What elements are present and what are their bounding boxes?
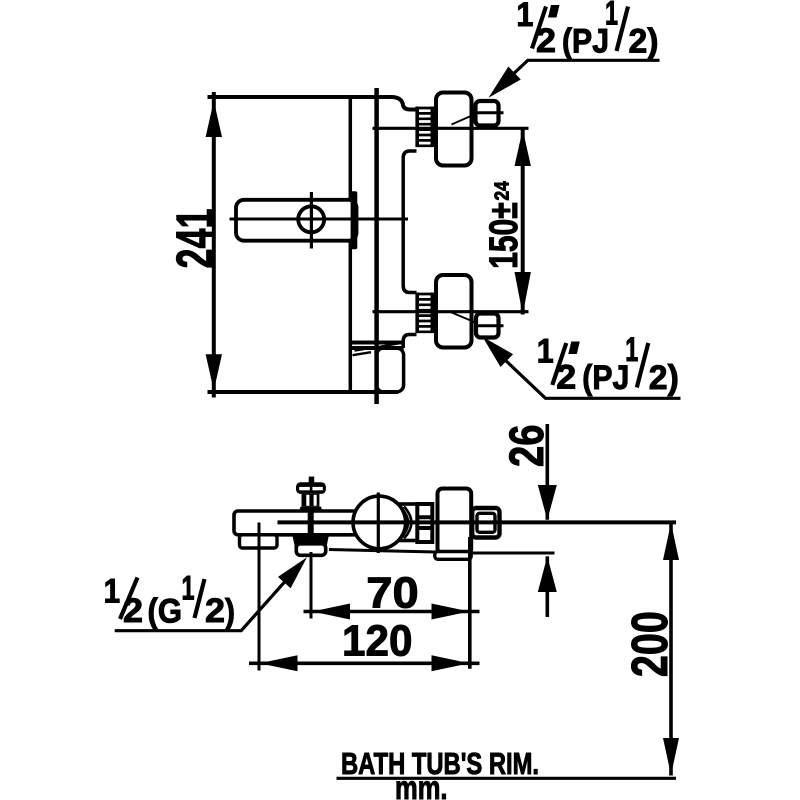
- btm knurl white backing: [416, 502, 435, 543]
- spout small diagonal: [353, 352, 372, 355]
- bottom cap chamfer line: [452, 313, 476, 323]
- svg-text:150±: 150±: [482, 202, 526, 269]
- svg-text:(PJ: (PJ: [582, 359, 629, 397]
- body bottom edge + extension line 241: [208, 390, 399, 394]
- dim 200 line: [669, 523, 673, 776]
- svg-text:241: 241: [167, 209, 225, 269]
- spout outlet box: [377, 348, 404, 392]
- label G text: [104, 570, 235, 632]
- spout diagonal detail: [355, 343, 403, 351]
- bottom nut stub line: [476, 324, 504, 327]
- dim 26 down arrow: [538, 485, 557, 520]
- svg-text:26: 26: [501, 425, 554, 468]
- screw stem through bar: [308, 511, 314, 535]
- svg-text:70: 70: [366, 569, 419, 618]
- svg-text:2: 2: [536, 22, 556, 60]
- dim 150 bottom arrow: [515, 272, 531, 315]
- spout ledge line 1: [350, 341, 403, 345]
- svg-text:mm.: mm.: [395, 769, 448, 800]
- svg-text:1: 1: [625, 331, 638, 369]
- top knurl right edge: [430, 107, 434, 148]
- screw stem top: [309, 477, 315, 484]
- bath tub rim underline / extension: [337, 777, 677, 780]
- deck bar: [234, 511, 419, 535]
- dim 150 line: [521, 130, 525, 315]
- datum line left: [329, 550, 436, 553]
- dim 70 left extension: [310, 552, 313, 619]
- label PJ top underline: [500, 60, 660, 86]
- label PJ bottom text: [537, 331, 679, 397]
- dim 70 right arrow: [432, 604, 470, 620]
- svg-text:120: 120: [342, 617, 413, 666]
- top cap: [436, 93, 472, 166]
- btm nut inner: [477, 513, 495, 532]
- dim 241 top arrow: [206, 101, 222, 137]
- btm knurl threads: [416, 504, 435, 542]
- screw T cap: [296, 482, 326, 494]
- handle centerline: [230, 218, 409, 221]
- btm cap flange lip: [435, 552, 471, 560]
- body top edge + extension line 241: [208, 97, 417, 110]
- top nut: [476, 101, 499, 126]
- bottom knurl threads: [416, 294, 434, 332]
- svg-text:2: 2: [205, 592, 225, 630]
- svg-text:2): 2): [649, 359, 679, 397]
- svg-text:2: 2: [556, 359, 576, 397]
- svg-text:2: 2: [123, 592, 143, 630]
- svg-text:24: 24: [491, 181, 513, 201]
- dim 26 line upper: [545, 424, 549, 520]
- dim 26 up arrow: [538, 556, 557, 592]
- label G arrowhead: [278, 557, 307, 588]
- dim 120 left arrow: [260, 655, 298, 671]
- btm cap: [438, 489, 472, 555]
- handle pivot circle: [298, 206, 324, 232]
- handle lever body: [236, 200, 357, 241]
- top fitting centerline: [373, 127, 529, 130]
- crescent arc outer: [404, 507, 411, 539]
- bonnet box: [394, 504, 418, 541]
- bottom nut: [476, 314, 499, 338]
- deck foot: [240, 535, 278, 548]
- dim 200 top arrow: [663, 523, 679, 560]
- svg-text:1: 1: [537, 333, 554, 371]
- body left vertical: [349, 97, 353, 392]
- svg-text:1: 1: [182, 570, 195, 608]
- bottom knurl right edge: [430, 293, 434, 334]
- bottom fitting centerline: [373, 310, 529, 313]
- screw T cap slot 2: [312, 487, 322, 490]
- top knurl white backing: [416, 107, 435, 148]
- top nut stub line: [476, 111, 504, 114]
- dim 120 left extension: [258, 523, 261, 671]
- top cap chamfer line: [452, 114, 477, 125]
- crescent arc inner: [402, 509, 408, 538]
- dim 120 line: [249, 661, 480, 665]
- svg-text:2): 2): [629, 23, 659, 61]
- dim 70 left arrow: [312, 604, 350, 620]
- bottom knurl left edge: [415, 293, 419, 334]
- datum line right: [471, 552, 555, 555]
- screw neck: [302, 494, 320, 507]
- dim 241 bottom arrow: [206, 354, 222, 390]
- screw neck slit 2: [314, 495, 317, 506]
- main centerline: [278, 520, 677, 524]
- screw T cap slot 1: [299, 487, 310, 490]
- dim 70 line: [304, 610, 480, 614]
- handle end cap black: [351, 191, 358, 249]
- bottom cap: [436, 275, 472, 348]
- dim 70/120 right extension: [468, 537, 472, 669]
- label PJ top text: [516, 0, 658, 60]
- svg-text:1: 1: [104, 572, 121, 610]
- label G underline + leader: [115, 577, 289, 631]
- top knurl threads: [416, 108, 434, 146]
- dim 120 right arrow: [432, 655, 470, 671]
- btm knurl right edge: [430, 502, 434, 544]
- svg-text:1: 1: [605, 0, 618, 32]
- svg-text:200: 200: [621, 611, 678, 677]
- dim 241 line: [212, 92, 216, 398]
- dim 26 line lower: [545, 556, 549, 617]
- under nut tail: [296, 544, 325, 556]
- dim 200 bottom arrow: [663, 738, 679, 775]
- label PJ bottom arrowhead: [483, 337, 514, 367]
- svg-text:(PJ: (PJ: [562, 23, 609, 61]
- dim 150 top arrow: [515, 130, 531, 167]
- btm nut outer: [472, 508, 499, 538]
- screw base trapezoid: [299, 507, 323, 512]
- bottom knurl white backing: [416, 293, 435, 334]
- svg-text:): ): [225, 593, 235, 631]
- handle crosshair vertical: [310, 192, 313, 249]
- top knurl left edge: [415, 107, 419, 148]
- svg-text:1: 1: [516, 0, 533, 34]
- label PJ bottom underline: [503, 358, 681, 398]
- svg-text:(G: (G: [148, 593, 183, 631]
- valve circle: [353, 496, 406, 549]
- under nut black: [292, 535, 329, 547]
- spout ledge line 2: [350, 346, 403, 350]
- btm knurl left edge: [415, 502, 419, 544]
- label PJ top arrowhead: [489, 67, 521, 98]
- lower stub outline: [403, 335, 416, 349]
- valve circle crosshair vertical: [377, 493, 380, 554]
- pipe connector outline between fittings: [403, 151, 416, 293]
- screw neck slit 1: [306, 495, 309, 506]
- body right vertical bold: [374, 88, 379, 404]
